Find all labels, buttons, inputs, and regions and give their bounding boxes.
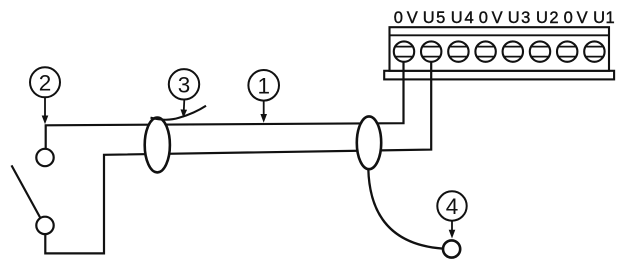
screw terminal U1 pin8: [584, 41, 604, 61]
cable sheath ferrule left: [145, 118, 170, 173]
wire: drain lead from right ferrule to ring end: [368, 169, 443, 249]
cable sheath ferrule right: [357, 116, 381, 169]
svg-text:0V: 0V: [564, 9, 588, 27]
net labels 0V U5 U4 0V U3 U2 0V U1: [394, 9, 615, 27]
terminal block body: [390, 27, 610, 71]
callout 2 (switch): [30, 67, 60, 124]
screw terminal U3 pin5: [503, 41, 523, 61]
svg-text:U2: U2: [536, 9, 559, 27]
svg-text:U3: U3: [508, 9, 531, 27]
terminal block TB1: [384, 27, 614, 79]
svg-text:U1: U1: [593, 9, 615, 27]
screw terminal U2 pin6: [530, 41, 550, 61]
callout 3 (shield strand): [169, 69, 199, 118]
svg-text:0V: 0V: [479, 9, 503, 27]
wire: bottom cable conductor from switch bottom to terminal U5: [45, 52, 431, 253]
wire: shield strand at left ferrule: [151, 106, 207, 120]
wire: top cable conductor from switch to terminal 0V: [46, 52, 404, 149]
ring terminal end (node): [443, 240, 460, 257]
screw terminal U4 pin3: [448, 41, 468, 61]
screw terminal 0V pin4: [475, 41, 495, 61]
svg-text:3: 3: [178, 73, 191, 98]
screw terminal 0V pin1: [394, 41, 414, 61]
svg-text:U5: U5: [423, 9, 446, 27]
svg-text:U4: U4: [451, 9, 474, 27]
terminal block base plate: [384, 71, 614, 80]
switch S1 lever (open): [12, 165, 41, 218]
callout 4 (ring end): [437, 191, 466, 238]
svg-text:1: 1: [257, 74, 270, 99]
switch S1 upper contact: [36, 149, 53, 166]
svg-text:0V: 0V: [394, 9, 418, 27]
svg-text:4: 4: [446, 194, 459, 219]
screw terminal U5 pin2: [421, 41, 441, 61]
screw terminals pins 1-8: [394, 41, 605, 61]
svg-text:2: 2: [39, 71, 52, 96]
callout 1 (cable): [248, 70, 279, 123]
terminal block rim line: [390, 34, 610, 36]
switch S1 lower contact: [36, 217, 53, 234]
screw terminal 0V pin7: [557, 41, 577, 61]
